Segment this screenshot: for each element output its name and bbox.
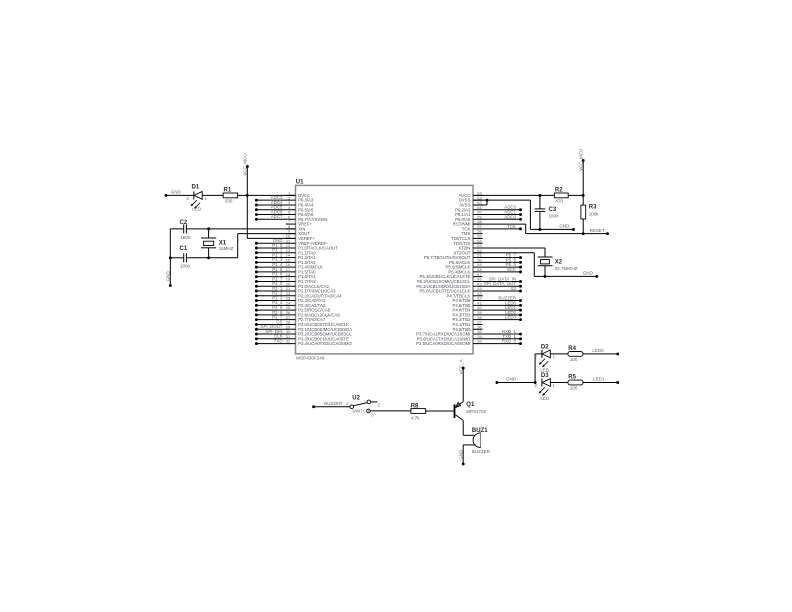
capacitor C1 100n bbox=[180, 246, 191, 268]
svg-text:2: 2 bbox=[535, 383, 538, 388]
U1 pin 51 P5.7/TBOUTH/SVSOUT / net P5_7 bbox=[424, 253, 522, 261]
U1 pin 50 P5.6/ACLK / net P5_6 bbox=[449, 257, 522, 265]
U1 pin 29 P3.1/UCB0SIMO/UCB0SDA / net SPI_DOUT bbox=[255, 324, 352, 332]
U1 pin 58 RST/NMI bbox=[453, 219, 483, 226]
svg-text:R4: R4 bbox=[568, 346, 576, 352]
svg-text:U1: U1 bbox=[296, 180, 304, 186]
svg-text:R8: R8 bbox=[411, 403, 419, 409]
svg-text:C3: C3 bbox=[549, 207, 557, 213]
svg-text:GND: GND bbox=[506, 377, 517, 382]
svg-text:16MHZ: 16MHZ bbox=[219, 246, 234, 251]
wire DVSS pin 63 to GND bbox=[473, 199, 541, 231]
wire LED common vertical (D2/D3 cathodes) bbox=[535, 354, 542, 383]
resistor R4 100 bbox=[568, 346, 618, 362]
U1 pin 19 P1.7/TA2 / net P1_7 bbox=[255, 276, 316, 284]
U1 pin 16 P1.4/SMCLK / net P1_4 bbox=[255, 262, 323, 270]
U1 pin 30 P3.2/UCB0SOMI/UCB0SCL / net SPI_DIN bbox=[255, 329, 352, 337]
U1 pin 7 VREF+ bbox=[286, 219, 313, 226]
svg-text:100: 100 bbox=[570, 357, 578, 362]
LED D2 bbox=[535, 344, 568, 372]
U1 pin 38 P4.2/TB2 / net LED3 bbox=[452, 315, 521, 323]
svg-text:100n: 100n bbox=[180, 263, 191, 268]
svg-text:TCK: TCK bbox=[507, 224, 516, 229]
U1 pin 39 P4.3/TB3 / net LED2 bbox=[452, 310, 521, 318]
svg-text:470: 470 bbox=[555, 198, 563, 203]
transistor Q1 MPS3702 (PNP) bbox=[455, 402, 487, 436]
U1 pin 3 P6.4/A4 / net ADC4 bbox=[255, 200, 314, 208]
U1 pin 2 P6.3/A3 / net ADC3 bbox=[255, 195, 314, 203]
ground flag near D3 bbox=[495, 377, 536, 384]
svg-text:GND: GND bbox=[166, 271, 171, 282]
power flag VCC_MCU (right) bbox=[579, 149, 585, 197]
svg-text:RXD_0: RXD_0 bbox=[502, 339, 517, 344]
U1 pin 34 P3.6/UCA1TXD/UCA1SIMO / net TXD_1 bbox=[417, 334, 522, 342]
U1 pin 22 P2.2/CAOUT/TA0/CA4 / net P2_2 bbox=[255, 291, 342, 299]
U1 pin 10 VEREF+ bbox=[286, 234, 316, 241]
power flag VCC_A above Q1 bbox=[459, 359, 465, 401]
svg-text:MPS3702: MPS3702 bbox=[466, 409, 486, 414]
svg-text:VCC_MCU: VCC_MCU bbox=[579, 149, 584, 171]
U1 pin 18 P1.6/TA1 / net P1_6 bbox=[255, 272, 316, 280]
wire XT2OUT pin 52 bbox=[473, 253, 546, 278]
svg-text:D1: D1 bbox=[192, 184, 200, 190]
U1 pin 1 DVCC bbox=[286, 191, 310, 198]
svg-text:GND: GND bbox=[583, 271, 594, 276]
U1 pin 5 P6.6/A6 / net ADC6 bbox=[255, 209, 314, 217]
wire AVSS pin 62 joins DVSS bbox=[473, 200, 487, 205]
svg-text:1: 1 bbox=[553, 383, 556, 388]
ground flag at D1 anode (GND net, top-left) bbox=[165, 190, 194, 197]
svg-text:P3.4/UCA0TXD/UCA0SIMO: P3.4/UCA0TXD/UCA0SIMO bbox=[298, 341, 352, 346]
U1 pin 63 DVSS bbox=[459, 195, 483, 202]
wire XT2IN pin 53 to crystal X2 bbox=[473, 248, 545, 257]
svg-text:LED: LED bbox=[192, 206, 202, 211]
U1 pin 52 XT2OUT bbox=[453, 248, 482, 255]
U1 pin 42 P4.6/TB6 / net BUZZER bbox=[452, 296, 521, 304]
U1 pin 48 P5.4/MCLK / net SCK bbox=[448, 267, 522, 275]
svg-text:GND: GND bbox=[171, 190, 182, 195]
svg-text:32.768KHZ: 32.768KHZ bbox=[555, 266, 578, 271]
U1 pin 25 P2.5/ROSC/CA5 / net P2_5 bbox=[255, 305, 331, 313]
U1 pin 62 AVSS bbox=[459, 200, 482, 207]
svg-text:R3: R3 bbox=[589, 205, 597, 211]
svg-text:LED3: LED3 bbox=[505, 315, 517, 320]
buzzer BUZ1 bbox=[463, 428, 490, 454]
capacitor C2 100n bbox=[180, 220, 191, 240]
crystal X1 16MHZ bbox=[201, 229, 234, 258]
U1 pin 4 P6.5/A5 / net ADC5 bbox=[255, 205, 314, 213]
ground flag (left rail GND) bbox=[166, 229, 172, 287]
op-amp U1 MSP430F249 microcontroller box bbox=[296, 180, 474, 361]
U1 pin 35 P3.7/UCA1RXD/UCA1SOMI / net RXD_1 bbox=[416, 329, 522, 337]
svg-text:3: 3 bbox=[371, 412, 374, 417]
svg-text:33: 33 bbox=[477, 339, 482, 344]
svg-text:100n: 100n bbox=[549, 213, 560, 218]
svg-text:GND: GND bbox=[459, 449, 464, 460]
crystal X2 32.768KHZ bbox=[538, 257, 578, 276]
U1 pin 55 TDI/TCLK bbox=[451, 234, 482, 241]
svg-text:ADC0: ADC0 bbox=[504, 214, 516, 219]
switch U2 SWITCH bbox=[346, 395, 411, 417]
svg-text:LED1: LED1 bbox=[593, 377, 605, 382]
U1 pin 21 P2.1/TAINCLK/CA3 / net P2_1 bbox=[255, 286, 336, 294]
U1 pin 46 P5.2/UCB1SOMI/UCB1SCL / net SPI_DATA_IN bbox=[417, 276, 522, 284]
svg-text:330: 330 bbox=[225, 198, 233, 203]
U1 pin 28 P3.0/UCB0STE/UCA0CLK / net CS bbox=[255, 319, 349, 327]
U1 pin 13 P1.1/TA0 / net P1_1 bbox=[255, 248, 316, 256]
U1 pin 23 P2.3/CA0/TA1 / net P2_3 bbox=[255, 295, 326, 303]
svg-text:Q1: Q1 bbox=[466, 402, 475, 408]
U1 pin 24 P2.4/CA1/TA2 / net P2_4 bbox=[255, 300, 326, 308]
U1 pin 12 P1.0/TACLK/CAOUT / net P1_0 bbox=[255, 243, 338, 251]
svg-text:LED: LED bbox=[540, 367, 550, 372]
svg-text:D3: D3 bbox=[541, 373, 549, 379]
U1 pin 33 P3.5/UCA0RXD/UCA0SOMI / net RXD_0 bbox=[416, 339, 522, 347]
svg-text:RESET: RESET bbox=[590, 228, 605, 233]
U1 pin 14 P1.2/TA1 / net P1_2 bbox=[255, 252, 316, 260]
U1 pin 60 P6.1/A1 / net ADC1 bbox=[455, 210, 522, 218]
svg-text:BUZZER: BUZZER bbox=[324, 401, 343, 406]
U1 pin 57 TCK / net TCK bbox=[462, 224, 522, 232]
svg-text:100: 100 bbox=[570, 386, 578, 391]
U1 pin 32 P3.4/UCA0TXD/UCA0SIMO / net TXD bbox=[255, 338, 353, 346]
U1 pin 8 XIN bbox=[286, 224, 305, 231]
svg-text:GND: GND bbox=[559, 224, 570, 229]
U1 pin 44 P5.0/UCB1STE/UCA1CLK / net S3 bbox=[420, 286, 522, 294]
svg-text:1: 1 bbox=[205, 196, 208, 201]
resistor R3 100k bbox=[581, 195, 599, 233]
svg-text:R5: R5 bbox=[568, 375, 576, 381]
svg-text:1: 1 bbox=[553, 354, 556, 359]
svg-text:VCC_A: VCC_A bbox=[459, 359, 464, 374]
LED D3 bbox=[535, 373, 568, 401]
wire XOUT rail to pin 9 bbox=[170, 234, 295, 260]
svg-text:LED: LED bbox=[540, 396, 550, 401]
svg-text:R2: R2 bbox=[555, 188, 563, 194]
U1 pin 9 XOUT bbox=[286, 229, 311, 236]
svg-text:BUZZER: BUZZER bbox=[472, 449, 491, 454]
svg-text:X2: X2 bbox=[555, 260, 563, 266]
resistor R8 4.7k bbox=[411, 403, 454, 420]
svg-text:MSP430F249: MSP430F249 bbox=[296, 356, 325, 361]
U1 pin 20 P2.0/ACLK/CA2 / net P2_0 bbox=[255, 281, 330, 289]
svg-text:LED0: LED0 bbox=[592, 348, 604, 353]
svg-text:32: 32 bbox=[286, 339, 291, 344]
ground flag near X2 bbox=[545, 271, 598, 278]
resistor R1 330 bbox=[223, 188, 247, 204]
svg-text:C1: C1 bbox=[180, 246, 188, 252]
U1 pin 45 P5.1/UCB1SIMO/UCB1SDA / net SPI_DATA_OUT bbox=[416, 281, 522, 289]
svg-text:D2: D2 bbox=[541, 344, 549, 350]
U1 pin 56 TMS bbox=[461, 229, 482, 236]
U1 pin 40 P4.4/TB4 / net LED1 bbox=[452, 305, 521, 313]
U1 pin 6 P6.7/A7/SVSIN / net ADC7 bbox=[255, 214, 328, 222]
svg-text:4.7k: 4.7k bbox=[411, 415, 420, 420]
svg-text:P3.5/UCA0RXD/UCA0SOMI: P3.5/UCA0RXD/UCA0SOMI bbox=[416, 341, 470, 346]
ground flag below BUZ1 bbox=[459, 445, 465, 465]
U1 pin 47 P5.3/UCB1CLK/UCA1STE bbox=[420, 272, 483, 279]
svg-text:R1: R1 bbox=[224, 188, 232, 194]
U1 pin 54 TDO/TDI bbox=[453, 238, 482, 245]
svg-text:SWITCH: SWITCH bbox=[352, 408, 369, 413]
node LED0 bbox=[592, 348, 619, 355]
U1 pin 27 P2.7/TA0/CA7 / net P2_7 bbox=[255, 315, 326, 323]
svg-text:SCK: SCK bbox=[507, 267, 516, 272]
node LED1 bbox=[593, 377, 619, 384]
junction node VCC_MCU / R1 / DVCC bbox=[246, 194, 296, 197]
svg-text:100n: 100n bbox=[180, 235, 191, 240]
svg-text:BUZ1: BUZ1 bbox=[472, 428, 488, 434]
node BUZZER net stub bbox=[312, 401, 350, 408]
U1 pin 59 P6.0/A0 / net ADC0 bbox=[455, 214, 522, 222]
U1 pin 17 P1.5/TA0 / net P1_5 bbox=[255, 267, 316, 275]
svg-text:S3: S3 bbox=[511, 286, 517, 291]
U1 pin 61 P6.2/A2 / net ADC2 bbox=[455, 205, 522, 213]
resistor R2 470 bbox=[554, 188, 583, 204]
svg-text:2: 2 bbox=[187, 196, 190, 201]
U1 pin 41 P4.5/TB5 / net LED0 bbox=[452, 300, 521, 308]
resistor R5 100 bbox=[568, 375, 618, 391]
svg-text:2: 2 bbox=[535, 354, 538, 359]
svg-text:100k: 100k bbox=[589, 212, 600, 217]
svg-text:1: 1 bbox=[346, 401, 349, 406]
U1 pin 11 VREF-/VEREF- / net GND bbox=[255, 238, 329, 246]
U1 pin 31 P3.3/UCB0CLK/UCA0STE / net CLK bbox=[255, 334, 349, 342]
U1 pin 15 P1.3/TA2 / net P1_3 bbox=[255, 257, 316, 265]
U1 pin 49 P5.5/SMCLK / net P5_5 bbox=[446, 262, 522, 270]
U1 pin 26 P2.6/ADC12CLK/CA6 / net P2_6 bbox=[255, 310, 341, 318]
svg-text:C2: C2 bbox=[180, 220, 188, 226]
ground flag near C3 bbox=[540, 224, 575, 231]
svg-text:ADC7: ADC7 bbox=[271, 214, 283, 219]
wire XIN rail to pin 8 bbox=[170, 227, 295, 230]
power flag VCC_MCU (left) bbox=[243, 154, 296, 239]
wire AVCC pin 64 to R2 bbox=[473, 194, 554, 197]
capacitor C3 100n bbox=[535, 195, 559, 229]
U1 pin 64 AVCC bbox=[459, 191, 483, 198]
U1 pin 37 P4.1/TB1 bbox=[452, 320, 482, 327]
svg-text:U2: U2 bbox=[352, 395, 360, 401]
svg-text:TXD: TXD bbox=[274, 338, 283, 343]
svg-text:VCC_MCU: VCC_MCU bbox=[243, 154, 248, 176]
U1 pin 36 P4.0/TB0 bbox=[452, 324, 482, 331]
LED D1 with pin numbers 2 and 1 bbox=[187, 184, 224, 211]
wire RST/NMI pin 58 to RESET net bbox=[473, 224, 609, 235]
U1 pin 43 P4.7/TBCLK bbox=[447, 291, 483, 298]
U1 pin 53 XT2IN bbox=[458, 243, 482, 250]
svg-text:2: 2 bbox=[378, 403, 381, 408]
